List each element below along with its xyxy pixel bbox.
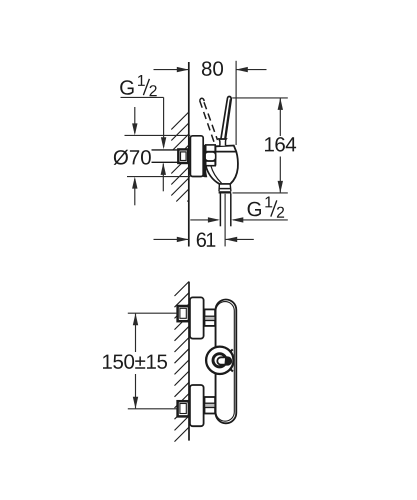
- outlet / hose coupling: [219, 184, 232, 194]
- label G 1/2 (bottom right): [248, 202, 261, 217]
- G1/2 leader (top left): [121, 97, 167, 191]
- dimension 150±15: [128, 313, 178, 409]
- bottom inlet nut: [178, 401, 189, 416]
- bottom hex nut: [205, 397, 216, 414]
- connector collar: [203, 145, 208, 177]
- dimension 80: [154, 61, 267, 145]
- label 61: [197, 233, 216, 248]
- pipe union nut: [178, 149, 188, 163]
- label 164: [265, 137, 296, 152]
- lever handle: [221, 96, 231, 139]
- wall line (lower view): [188, 282, 190, 441]
- top hex nut: [205, 309, 216, 326]
- top escutcheon: [190, 297, 204, 338]
- wall hatching (side view): [171, 112, 189, 202]
- shower hose: [220, 194, 230, 227]
- lever handle rotated (dashed): [200, 98, 218, 143]
- G1/2 supply pipe stub behind wall: [152, 150, 179, 162]
- G1/2 arrows (hose thread): [190, 217, 287, 222]
- dimension Ø70 arrows: [125, 107, 191, 205]
- label G 1/2 (top left): [120, 80, 133, 95]
- escutcheon wall plate (side view): [190, 136, 203, 177]
- label 150 +/- 15: [103, 354, 167, 369]
- mixer body (side view): [206, 146, 238, 184]
- lever knob (front view): [206, 347, 233, 374]
- bottom escutcheon: [190, 385, 204, 426]
- mixer body (front view): [216, 300, 237, 424]
- dimension 61: [154, 194, 254, 247]
- label 80: [202, 61, 223, 76]
- wall line (side view): [188, 62, 190, 247]
- dimension 164: [232, 98, 288, 193]
- mounting nut (side view): [205, 145, 216, 166]
- top inlet nut: [178, 306, 189, 321]
- lever seat: [219, 139, 226, 146]
- label O70: [114, 150, 151, 165]
- wall hatching (lower view): [175, 282, 190, 442]
